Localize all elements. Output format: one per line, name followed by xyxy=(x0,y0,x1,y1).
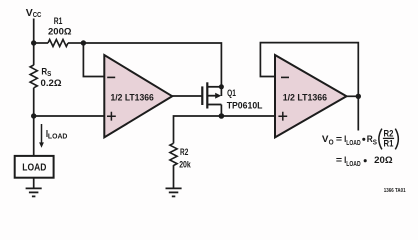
wire U1 output to Q1 gate xyxy=(172,95,202,97)
wire R2 to ground xyxy=(173,165,175,188)
svg-text:20k: 20k xyxy=(179,159,191,170)
svg-text:S: S xyxy=(47,69,51,78)
label RS xyxy=(41,67,51,78)
wire top rail left (VCC to R1) xyxy=(34,42,48,44)
junction VO output node xyxy=(356,94,361,99)
svg-text:=: = xyxy=(336,154,343,165)
junction VCC/R1 node xyxy=(31,40,36,45)
wire R1 to junction xyxy=(68,42,83,44)
transistor Q1 TP0610L xyxy=(202,82,224,116)
fraction R2 over R1 with parentheses xyxy=(379,128,399,149)
junction Q1 source node xyxy=(219,113,225,119)
wire LOAD box to ground xyxy=(33,178,35,189)
svg-text:1/2 LT1366: 1/2 LT1366 xyxy=(283,92,327,103)
resistor R1 xyxy=(48,40,68,47)
op-amp U1 1/2 LT1366 xyxy=(104,55,172,137)
svg-text:20Ω: 20Ω xyxy=(374,154,393,165)
wire U2 feedback loop xyxy=(260,43,358,131)
wire load node to U1 non-inverting input xyxy=(34,115,105,117)
ground under R2 xyxy=(166,188,182,196)
svg-text:O: O xyxy=(329,138,334,147)
svg-text:1366 TA01: 1366 TA01 xyxy=(384,188,406,194)
svg-text:R2: R2 xyxy=(180,147,188,158)
svg-text:S: S xyxy=(373,138,377,147)
svg-text:R1: R1 xyxy=(54,16,63,27)
wire VCC stem down to RS xyxy=(33,19,35,66)
svg-text:LOAD: LOAD xyxy=(346,138,361,147)
op-amp U2 1/2 LT1366 xyxy=(275,55,347,137)
junction R1 / inverting branch xyxy=(81,40,86,45)
svg-text:LOAD: LOAD xyxy=(346,159,361,168)
wire U2 output to node xyxy=(347,95,359,97)
svg-text:LOAD: LOAD xyxy=(48,131,68,140)
node VCC label xyxy=(26,8,42,19)
svg-text:LOAD: LOAD xyxy=(22,163,47,174)
svg-text:200Ω: 200Ω xyxy=(48,26,72,37)
svg-text:TP0610L: TP0610L xyxy=(227,100,263,111)
label ILOAD xyxy=(46,129,68,140)
svg-text:CC: CC xyxy=(33,10,42,19)
wire load node down to LOAD box xyxy=(33,116,35,156)
label VO formula line 1 xyxy=(322,133,377,147)
label VO formula line 2 xyxy=(336,154,393,168)
resistor RS xyxy=(30,65,37,88)
wire RS bottom to LOAD node xyxy=(33,88,35,116)
load box LOAD xyxy=(15,156,54,178)
wire branch to U1 inverting input xyxy=(83,43,104,77)
wire source node rail to U2 non-inverting input xyxy=(174,116,276,143)
ground under LOAD xyxy=(26,188,42,196)
wire top rail to Q1 drain xyxy=(83,43,221,96)
resistor R2 xyxy=(170,143,177,165)
junction load node xyxy=(31,113,36,118)
svg-text:0.2Ω: 0.2Ω xyxy=(41,78,62,89)
svg-text:=: = xyxy=(336,133,343,144)
svg-text:Q1: Q1 xyxy=(227,88,236,99)
svg-text:1/2 LT1366: 1/2 LT1366 xyxy=(111,92,154,103)
arrow ILOAD current xyxy=(39,124,44,148)
svg-text:R1: R1 xyxy=(384,138,394,149)
